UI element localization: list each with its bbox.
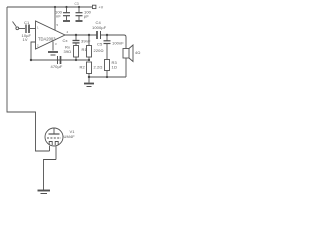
speaker LS1 [123,45,133,77]
svg-text:4Ω: 4Ω [135,50,140,55]
svg-text:1: 1 [37,26,39,30]
svg-text:100nF: 100nF [112,41,124,46]
resistor R2 2.2 ohm [87,62,92,77]
svg-text:1V: 1V [23,37,28,42]
resistor R3 1 ohm zobel [105,60,110,78]
capacitor Cx 39nF [73,35,80,46]
ground bar bottom [38,190,51,192]
valve anode [53,129,55,134]
ground bar under 100nF cap [63,20,70,22]
svg-text:1000µF: 1000µF [92,25,107,30]
wire pin2 inverting input down [31,42,36,60]
svg-text:TDA2003: TDA2003 [38,37,56,42]
junction R1/R2 on node A rail [88,59,90,61]
svg-text:3: 3 [55,42,57,46]
svg-text:39Ω: 39Ω [64,49,72,54]
junction 100uF cap on +V rail [78,6,80,8]
capacitor 100uF supply bypass [76,7,83,20]
junction zobel branch on output [106,34,108,36]
valve grid (dashed) [47,137,61,139]
junction dots [30,6,108,78]
svg-text:C3: C3 [75,2,79,6]
junction 100nF cap on +V rail [65,6,67,8]
svg-text:220Ω: 220Ω [94,48,104,53]
wire heater return to ground [44,160,57,191]
svg-text:2.2Ω: 2.2Ω [94,65,103,70]
valve pin leads [49,146,51,151]
svg-text:4: 4 [67,30,69,34]
ground bar pin3 [48,51,58,53]
resistor Rx 39 ohm [74,46,79,61]
svg-text:39nF: 39nF [81,39,91,44]
junction pin5 stub on +V rail [54,6,56,8]
svg-text:5: 5 [57,23,59,27]
junction R2 bottom on ground rail [88,76,90,78]
text labels [22,2,141,139]
svg-text:R2: R2 [80,65,86,70]
svg-text:Cx: Cx [63,38,68,43]
capacitor C1 10uF input [26,25,29,34]
svg-text:µF: µF [84,14,89,19]
svg-text:1Ω: 1Ω [112,65,117,70]
capacitor C2 470uF [58,56,61,64]
ground bar below R2 [88,77,90,83]
svg-text:+V: +V [99,5,104,9]
svg-text:R1: R1 [82,47,88,52]
wire output from apex [65,34,97,36]
capacitor C4 1000uF output [97,31,107,39]
wire +V supply rail [7,6,92,8]
junction R1 branch on output [88,34,90,36]
wire left long run from +V rail down to valve heater [7,7,50,151]
op-amp U1 TDA2003 triangle [36,21,66,49]
wire C1 to pin1 [30,28,36,30]
+V terminal [93,5,96,8]
junction node A at pin2 corner [30,59,32,61]
valve V1 envelope [45,128,63,146]
input terminal J1 [13,22,19,30]
junction Cx branch on output [75,34,77,36]
svg-text:nF: nF [56,14,61,19]
svg-text:C1: C1 [24,20,30,25]
junction R3 bottom on ground rail [106,76,108,78]
wire pin5 supply stub [54,7,56,30]
capacitor 100nF supply bypass [63,7,70,20]
svg-text:C5: C5 [97,42,103,47]
svg-text:UM4F: UM4F [64,134,76,139]
wire pin3 ground stub [52,41,54,50]
svg-text:470µF: 470µF [51,64,63,69]
wire ground rail [89,76,126,78]
capacitor C5 100nF zobel [104,35,111,60]
resistor R1 220 ohm [87,35,92,60]
wire node A rail [31,59,89,61]
valve heater loops [49,142,52,146]
junction Rx bottom on node A rail [75,59,77,61]
wire output node to speaker [107,35,126,49]
ground bar under 100uF cap [76,20,83,22]
svg-text:2: 2 [37,44,39,48]
wire input to C1 [19,28,25,30]
